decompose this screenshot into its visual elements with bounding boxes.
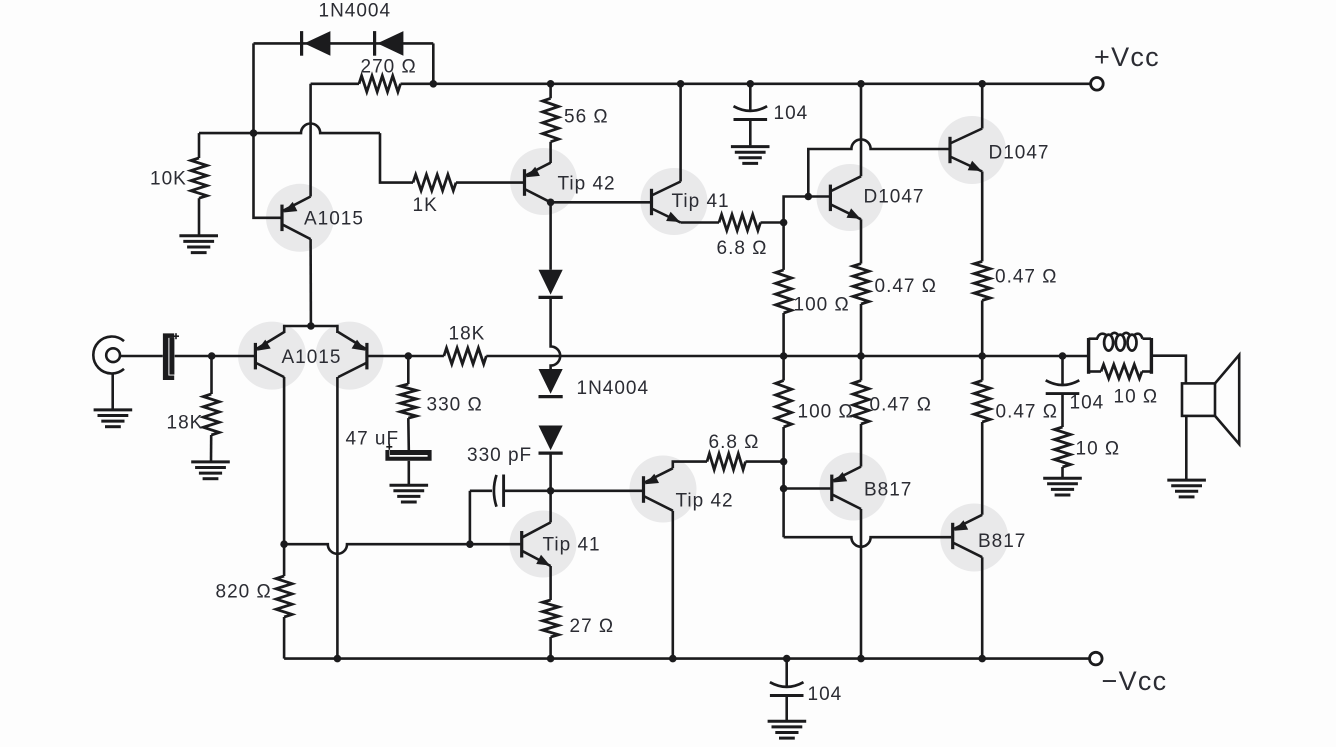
- svg-text:0.47 Ω: 0.47 Ω: [870, 395, 932, 416]
- label 330 pF: [467, 445, 532, 466]
- wire emitter tie left: [284, 326, 311, 333]
- junction dot D1047-1 collector tap: [857, 80, 865, 88]
- svg-text:Tip 42: Tip 42: [558, 174, 616, 195]
- capacitor 104 (zobel): [1046, 380, 1080, 393]
- ground below input 18K: [191, 462, 230, 479]
- node junction dot at 10K/feed cross: [250, 129, 258, 137]
- transistor A1015 diff-pair left: [255, 332, 284, 377]
- ground below 10K: [179, 236, 218, 253]
- label Tip 41 (upper): [672, 191, 730, 212]
- wire zobel bottom lead: [1061, 467, 1064, 477]
- wire 6.8 to node A upper: [761, 221, 784, 224]
- wire diode node to Tip42-lower base: [551, 489, 642, 492]
- label 0.47 Ohm (upper inner): [875, 276, 937, 297]
- wire D1047-1 collector to rail: [860, 84, 863, 177]
- svg-text:0.47 Ω: 0.47 Ω: [875, 276, 937, 297]
- transistor body shade A1015 diff left: [238, 322, 306, 390]
- label -Vcc: [1102, 666, 1168, 696]
- svg-text:10K: 10K: [150, 169, 187, 190]
- wire 0.47 lower inner leads: [860, 356, 863, 467]
- svg-text:1N4004: 1N4004: [319, 1, 392, 22]
- wire down and over to B817-2 base with hop: [784, 537, 952, 547]
- svg-text:56 Ω: 56 Ω: [564, 107, 609, 128]
- resistor 10K: [191, 158, 207, 198]
- svg-text:0.47 Ω: 0.47 Ω: [995, 267, 1057, 288]
- resistor 0.47 Ohm (lower outer): [974, 381, 990, 423]
- ground below zobel: [1043, 478, 1082, 495]
- label 6.8 Ohm (lower): [709, 432, 760, 453]
- wire bottom 104 lead: [785, 659, 788, 688]
- wire Tip41 emitter to 6.8: [681, 221, 719, 224]
- capacitor input coupling (polarized): [163, 333, 179, 380]
- wire base tee up and over to D1047-2 base with hop: [808, 139, 948, 196]
- label 18K (feedback): [449, 324, 486, 345]
- transistor Tip 42 (lower): [644, 468, 673, 510]
- wire +Vcc top rail left segment: [311, 83, 359, 86]
- wire zobel top lead: [1061, 356, 1064, 385]
- transistor B817 output (inner): [832, 467, 861, 509]
- wire diode branch top: [254, 42, 434, 45]
- svg-text:Tip 41: Tip 41: [672, 191, 730, 212]
- transistor B817 output (outer): [953, 515, 983, 557]
- wire top branch lead right: [1143, 337, 1152, 340]
- junction dot 56 Ohm tap: [547, 80, 555, 88]
- junction dot input node: [208, 352, 216, 360]
- ground below top 104: [731, 147, 770, 164]
- resistor 18K input: [203, 394, 219, 435]
- resistor 0.47 Ohm (upper inner): [853, 264, 869, 304]
- transistor A1015 diff-pair right: [338, 332, 367, 377]
- transistor D1047 output (inner): [830, 176, 861, 219]
- connector RCA input pin: [106, 348, 120, 362]
- junction dot 104 tap: [747, 80, 755, 88]
- wire 0.47 upper outer leads: [981, 172, 984, 357]
- junction dot B817 base tee: [780, 485, 788, 493]
- junction dot rail 27ohm: [547, 655, 555, 663]
- svg-text:6.8 Ω: 6.8 Ω: [709, 432, 760, 453]
- junction dot mid rail zobel tap: [1059, 352, 1067, 360]
- svg-text:0.47 Ω: 0.47 Ω: [996, 402, 1058, 423]
- label 104 (top): [774, 103, 809, 124]
- inductor L1 coil: [1097, 333, 1143, 351]
- svg-text:18K: 18K: [167, 413, 204, 434]
- label 10 Ohm (parallel): [1114, 387, 1159, 408]
- junction dot Tip42 collector node: [547, 199, 555, 207]
- transistor body shade Tip41 lower: [510, 511, 577, 578]
- diode D2 1N4004: [375, 31, 404, 56]
- transistor D1047 output (outer): [950, 129, 982, 172]
- label 27 Ohm: [570, 616, 615, 637]
- wire 10K top feed with hop over emitter drop: [199, 123, 380, 133]
- svg-text:B817: B817: [978, 531, 1026, 552]
- wire 10K lower lead: [198, 198, 201, 234]
- speaker driver box: [1182, 383, 1215, 416]
- wire -Vcc bottom rail: [284, 657, 1089, 660]
- resistor 1K: [413, 175, 456, 191]
- label D1047 (inner): [864, 187, 925, 208]
- label 1K: [413, 195, 438, 216]
- transistor A1015 current source: [282, 197, 311, 240]
- label 18K (input): [167, 413, 204, 434]
- resistor 18K feedback: [444, 348, 486, 364]
- wire RCA pin to input cap: [120, 355, 163, 358]
- resistor 820 Ohm: [276, 576, 292, 617]
- ground below bottom 104: [768, 721, 807, 738]
- wire D5 to lower node: [549, 453, 552, 491]
- resistor 6.8 Ohm (upper): [719, 215, 761, 231]
- wire Tip42 collector to Tip41 base: [551, 201, 650, 204]
- svg-text:A1015: A1015: [282, 347, 342, 368]
- transistor body shade D1047 inner: [817, 164, 884, 231]
- node left bar of LR network: [1087, 338, 1090, 374]
- wire node A lower down: [782, 462, 785, 538]
- junction dot mid rail col A: [780, 352, 788, 360]
- label 56 Ohm: [564, 107, 609, 128]
- resistor 56 Ohm: [543, 98, 559, 142]
- svg-text:A1015: A1015: [304, 209, 364, 230]
- wire 56-ohm top lead: [549, 84, 552, 99]
- diode D4 1N4004 (bias): [539, 369, 563, 397]
- wire 330-ohm to 47uF: [407, 418, 410, 450]
- wire tee to B817-1 base: [784, 487, 831, 490]
- label 100 Ohm (upper): [794, 295, 850, 316]
- wire 100 lower leads: [782, 356, 785, 462]
- diode D3 1N4004 (bias): [539, 270, 563, 298]
- junction dot left collector node: [280, 540, 288, 548]
- transistor Tip 42 VAS (upper): [525, 163, 551, 203]
- wire right diff base to feedback node: [368, 355, 409, 358]
- resistor 270 Ohm: [359, 76, 401, 92]
- wire 0.47 lower outer leads: [981, 356, 984, 515]
- transistor Tip 41 (lower): [522, 522, 551, 566]
- label A1015 (top): [304, 209, 364, 230]
- label 330 Ohm: [427, 395, 483, 416]
- ground below RCA: [94, 410, 133, 427]
- junction dot Tip41 collector tap: [677, 80, 685, 88]
- wire top branch lead left: [1089, 337, 1098, 340]
- label B817 (inner): [864, 480, 912, 501]
- label 0.47 Ohm (upper outer): [995, 267, 1057, 288]
- wire 330-ohm top lead: [407, 356, 410, 384]
- label 104 (bottom): [808, 684, 843, 705]
- junction dot D1047 base tee: [805, 193, 813, 201]
- wire mid rail to output network: [1088, 355, 1089, 358]
- wire base row with hop over right collector: [284, 544, 520, 554]
- transistor Tip 41 driver (upper): [652, 182, 681, 223]
- svg-text:Tip 42: Tip 42: [676, 491, 734, 512]
- wire 104 top lead: [749, 84, 752, 111]
- svg-text:−Vcc: −Vcc: [1102, 666, 1168, 696]
- svg-text:6.8 Ω: 6.8 Ω: [717, 238, 768, 259]
- label A1015 (diff pair): [282, 347, 342, 368]
- capacitor 104 (top rail bypass): [734, 106, 768, 119]
- svg-text:100 Ω: 100 Ω: [798, 402, 854, 423]
- junction dot mid rail col C: [978, 352, 986, 360]
- junction dot rail 104 tap: [783, 655, 791, 663]
- svg-text:D1047: D1047: [989, 143, 1050, 164]
- resistor 27 Ohm: [543, 600, 559, 637]
- junction dot rail right collector: [334, 655, 342, 663]
- wire zobel cap to 10 Ohm: [1061, 394, 1064, 427]
- junction dot diff-pair emitters: [307, 322, 315, 330]
- wire 0.47 upper inner leads: [860, 219, 863, 356]
- transistor body shade A1015 diff right: [316, 322, 384, 390]
- wire Tip41 collector to +Vcc rail: [679, 84, 682, 182]
- wire left diff collector down: [283, 377, 286, 544]
- label 47 uF: [346, 429, 400, 450]
- wire mid rail main: [486, 355, 1088, 358]
- diode D5 1N4004 (bias): [539, 426, 563, 454]
- label 0.47 Ohm (lower outer): [996, 402, 1058, 423]
- wire B817-1 collector down: [860, 509, 863, 659]
- wire D1047-2 collector to rail: [981, 84, 984, 129]
- transistor body shade B817 inner: [819, 453, 887, 521]
- wire RCA shell to ground: [111, 374, 114, 409]
- label 10 Ohm (zobel): [1076, 439, 1121, 460]
- wire Tip42-lower emitter to 6.8: [673, 462, 707, 469]
- wire emitter tie right: [311, 326, 338, 333]
- junction dot feedback node: [405, 352, 413, 360]
- wire Tip41-lower emitter to 27: [549, 566, 552, 600]
- junction dot 270/diodes: [430, 80, 438, 88]
- svg-text:330 Ω: 330 Ω: [427, 395, 483, 416]
- wire bend down to 1K: [380, 133, 413, 183]
- junction dot rail B817-1 collector: [857, 655, 865, 663]
- wire speaker to ground: [1185, 416, 1188, 479]
- label 1N4004 (top): [319, 1, 392, 22]
- speaker horn: [1215, 355, 1239, 444]
- svg-text:10 Ω: 10 Ω: [1076, 439, 1121, 460]
- svg-text:10 Ω: 10 Ω: [1114, 387, 1159, 408]
- junction dot node A upper: [780, 219, 788, 227]
- terminal -Vcc: [1090, 652, 1103, 665]
- wire bottom branch lead right: [1142, 370, 1151, 373]
- resistor 330 Ohm: [400, 384, 416, 418]
- svg-text:B817: B817: [864, 480, 912, 501]
- wire node A up to D1047-1 base: [784, 197, 829, 223]
- wire left vertical from diode branch to A1015 base: [254, 43, 283, 217]
- resistor 0.47 Ohm (upper outer): [974, 261, 990, 300]
- wire right diff collector down: [336, 377, 339, 659]
- wire output to speaker: [1151, 356, 1186, 384]
- wire 18K input resistor top lead: [210, 356, 213, 394]
- resistor 6.8 Ohm (lower): [707, 454, 746, 470]
- svg-text:D1047: D1047: [864, 187, 925, 208]
- svg-text:+Vcc: +Vcc: [1094, 42, 1160, 72]
- wire 330pF branch up: [469, 491, 472, 544]
- wire 100 upper leads: [782, 223, 785, 357]
- resistor 100 Ohm (lower): [776, 381, 792, 428]
- resistor 0.47 Ohm (lower inner): [853, 381, 869, 425]
- svg-text:Tip 41: Tip 41: [543, 535, 601, 556]
- svg-text:104: 104: [1070, 393, 1105, 414]
- svg-text:270 Ω: 270 Ω: [361, 57, 417, 78]
- label 10K: [150, 169, 187, 190]
- terminal +Vcc: [1091, 78, 1104, 91]
- wire input cap to diff pair base: [175, 355, 254, 358]
- transistor body shade B817 outer: [940, 504, 1008, 572]
- junction dot node A lower: [780, 458, 788, 466]
- label 104 (zobel): [1070, 393, 1105, 414]
- wire between D3 and D4 with hop over mid rail: [551, 297, 561, 369]
- capacitor 47uF (polarized): [385, 444, 431, 461]
- transistor body shade Tip42 lower: [630, 456, 697, 523]
- svg-text:27 Ω: 27 Ω: [570, 616, 615, 637]
- junction dot D1047-2 collector tap: [978, 80, 986, 88]
- node right bar of LR network: [1150, 338, 1153, 374]
- label 1N4004 (bias chain): [577, 378, 650, 399]
- label Tip 41 (lower): [543, 535, 601, 556]
- wire B817-2 collector down: [981, 557, 984, 658]
- label 820 Ohm: [216, 582, 272, 603]
- resistor 10 Ohm (zobel): [1055, 427, 1071, 467]
- wire bottom 104 to ground: [785, 696, 788, 721]
- label 100 Ohm (lower): [798, 402, 854, 423]
- svg-text:1N4004: 1N4004: [577, 378, 650, 399]
- junction dot mid rail col B: [857, 352, 865, 360]
- label B817 (outer): [978, 531, 1026, 552]
- resistor 10 Ohm (parallel with L1): [1101, 365, 1142, 379]
- wire 104 to ground (top): [749, 120, 752, 146]
- label 0.47 Ohm (lower inner): [870, 395, 932, 416]
- label +Vcc: [1094, 42, 1160, 72]
- capacitor 104 (bottom rail bypass): [770, 682, 804, 695]
- svg-text:104: 104: [808, 684, 843, 705]
- wire mid rail left segment: [408, 355, 444, 358]
- transistor body shade Tip41 upper: [641, 168, 708, 235]
- wire 18K input bottom lead: [210, 435, 213, 461]
- wire 56-ohm to Tip42 emitter: [549, 142, 552, 163]
- junction dot 330pF branch: [466, 540, 474, 548]
- wire 47uF to ground: [407, 461, 410, 484]
- transistor body shade A1015 top: [266, 184, 334, 252]
- resistor 100 Ohm (upper): [776, 270, 792, 313]
- wire A1015 collector down to diff pair emitters: [309, 239, 312, 326]
- svg-text:820 Ω: 820 Ω: [216, 582, 272, 603]
- label 6.8 Ohm (upper): [717, 238, 768, 259]
- connector RCA input outer shell: [93, 337, 124, 374]
- wire Tip41-lower collector up: [549, 491, 552, 523]
- ground below speaker: [1167, 480, 1206, 497]
- wire 330pF left lead: [470, 489, 492, 492]
- label Tip 42 (upper): [558, 174, 616, 195]
- wire right end of diode branch down to +Vcc rail: [432, 43, 435, 83]
- wire +Vcc top rail: [401, 83, 1091, 86]
- wire 820 bottom lead: [283, 617, 286, 659]
- svg-text:104: 104: [774, 103, 809, 124]
- capacitor 330 pF: [494, 475, 504, 507]
- junction dot rail B817-2 collector: [978, 655, 986, 663]
- svg-text:330 pF: 330 pF: [467, 445, 532, 466]
- wire 270-ohm left lead down to A1015 emitter: [309, 84, 312, 197]
- wire 10K upper lead: [198, 133, 201, 158]
- svg-text:47 uF: 47 uF: [346, 429, 400, 450]
- wire bottom branch lead left: [1089, 370, 1101, 373]
- svg-text:1K: 1K: [413, 195, 438, 216]
- wire 1K to Tip42 base: [456, 181, 523, 184]
- junction dot diode chain bottom: [547, 487, 555, 495]
- junction dot rail Tip42-lower collector: [669, 655, 677, 663]
- wire 820 top lead: [283, 544, 286, 576]
- ground below 47uF: [390, 485, 429, 502]
- transistor body shade D1047 outer: [938, 116, 1006, 184]
- diode D1 1N4004: [302, 31, 331, 56]
- label 270 Ohm: [361, 57, 417, 78]
- svg-text:100 Ω: 100 Ω: [794, 295, 850, 316]
- wire 27 bottom lead: [549, 637, 552, 659]
- wire 6.8 lower to node A lower: [746, 460, 784, 463]
- wire Tip42-lower collector down: [671, 511, 674, 659]
- svg-text:18K: 18K: [449, 324, 486, 345]
- label Tip 42 (lower): [676, 491, 734, 512]
- label D1047 (outer): [989, 143, 1050, 164]
- transistor body shade Tip42 upper: [510, 148, 577, 215]
- wire 330pF right lead: [504, 489, 551, 492]
- wire Tip42 collector down to D3: [549, 202, 552, 269]
